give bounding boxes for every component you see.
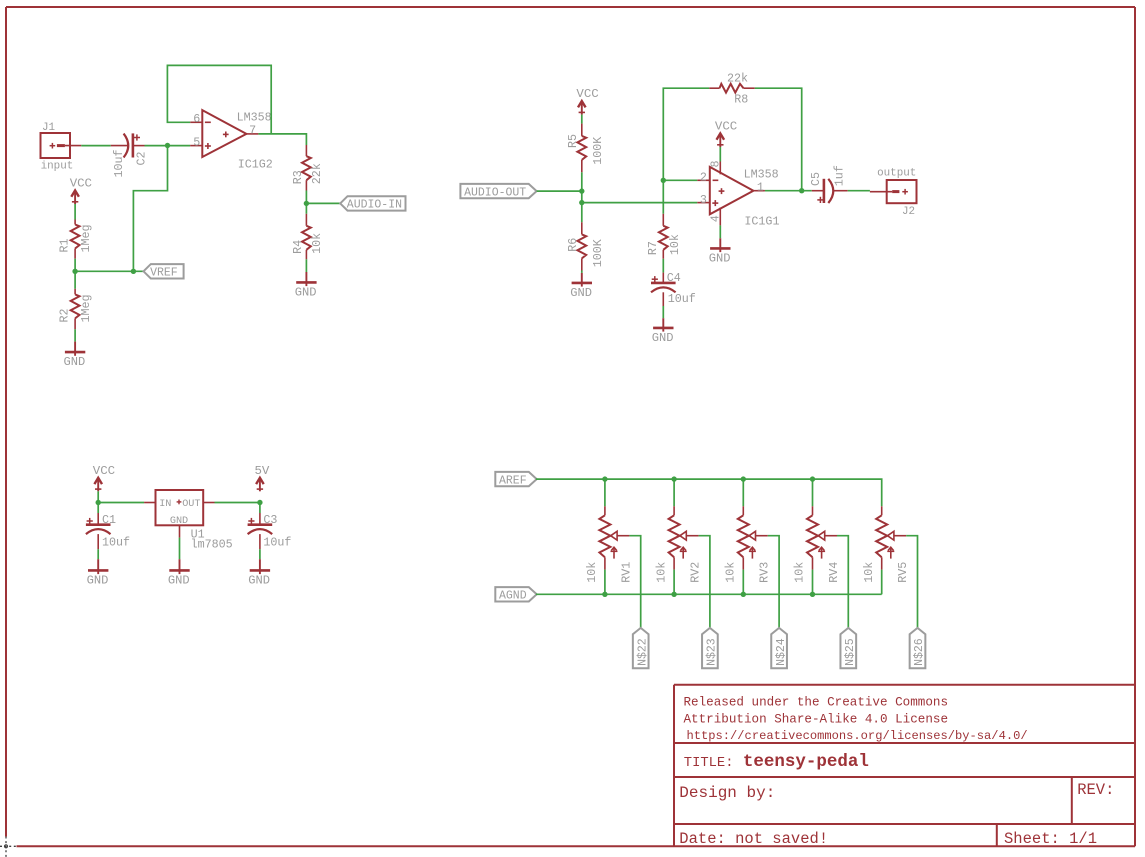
svg-text:10k: 10k — [724, 562, 738, 583]
ground — [87, 559, 109, 587]
junction — [602, 476, 607, 481]
wire — [74, 259, 76, 272]
svg-text:C3: C3 — [263, 513, 277, 527]
junction — [304, 201, 309, 206]
junction — [810, 592, 815, 597]
resistor R8 — [709, 72, 755, 107]
svg-text:10k: 10k — [310, 233, 324, 254]
wire — [74, 271, 76, 289]
net label N$24 — [771, 628, 788, 668]
svg-text:Attribution Share-Alike 4.0 Li: Attribution Share-Alike 4.0 License — [684, 712, 949, 726]
potentiometer RV1 — [585, 506, 633, 583]
svg-text:VCC: VCC — [715, 120, 737, 134]
svg-text:LM358: LM358 — [237, 111, 272, 125]
ground — [248, 559, 270, 587]
svg-text:GND: GND — [87, 573, 109, 587]
svg-text:100K: 100K — [591, 137, 605, 165]
wire — [742, 479, 744, 506]
wire — [259, 549, 261, 559]
wire — [663, 88, 709, 180]
svg-text:3: 3 — [700, 193, 707, 207]
wire — [662, 306, 664, 318]
connector J1 — [41, 122, 82, 173]
svg-text:OUT: OUT — [182, 499, 200, 510]
wire — [837, 536, 848, 628]
svg-text:R4: R4 — [291, 240, 305, 254]
svg-text:10k: 10k — [862, 562, 876, 583]
svg-text:J1: J1 — [42, 122, 56, 134]
junction — [741, 476, 746, 481]
wire — [133, 146, 167, 272]
svg-text:IN: IN — [159, 499, 171, 510]
net label VREF — [144, 264, 184, 279]
svg-text:10uf: 10uf — [102, 535, 130, 549]
junction — [602, 592, 607, 597]
svg-text:RV2: RV2 — [689, 562, 703, 583]
svg-text:J2: J2 — [902, 206, 915, 218]
wire — [581, 191, 583, 203]
resistor R1 — [58, 220, 94, 259]
svg-text:R6: R6 — [566, 238, 580, 252]
svg-text:GND: GND — [168, 573, 190, 587]
wire — [74, 329, 76, 341]
wire — [305, 191, 307, 204]
svg-text:Sheet: 1/1: Sheet: 1/1 — [1004, 830, 1097, 848]
svg-text:N$25: N$25 — [844, 638, 857, 666]
net label AREF — [495, 472, 536, 488]
wire — [306, 202, 340, 204]
wire — [305, 259, 307, 272]
svg-text:VCC: VCC — [576, 87, 598, 101]
wire — [662, 259, 664, 273]
capacitor C3 — [248, 513, 292, 550]
svg-text:4: 4 — [709, 215, 723, 222]
svg-text:input: input — [41, 161, 74, 173]
wire — [97, 549, 99, 559]
svg-text:N$23: N$23 — [706, 638, 719, 666]
wire — [536, 593, 882, 595]
svg-text:1uf: 1uf — [832, 165, 846, 186]
ground — [709, 238, 731, 265]
wire — [179, 538, 181, 560]
wire — [97, 503, 99, 514]
resistor R6 — [566, 222, 605, 270]
svg-text:VCC: VCC — [93, 464, 115, 478]
wire — [663, 179, 697, 181]
wire — [258, 134, 306, 145]
svg-text:GND: GND — [570, 286, 592, 300]
svg-text:C1: C1 — [102, 513, 116, 527]
svg-text:GND: GND — [170, 516, 188, 527]
wire — [812, 570, 814, 595]
wire — [719, 225, 721, 238]
junction — [661, 178, 666, 183]
wire — [848, 190, 870, 192]
svg-text:N$22: N$22 — [636, 638, 649, 666]
svg-text:10k: 10k — [793, 562, 807, 583]
resistor R3 — [291, 145, 324, 191]
wire — [812, 479, 814, 506]
wire — [906, 536, 917, 628]
svg-text:R5: R5 — [566, 134, 580, 148]
svg-text:AUDIO-OUT: AUDIO-OUT — [464, 187, 526, 200]
wire — [168, 145, 191, 147]
svg-text:5V: 5V — [255, 464, 270, 478]
wire — [582, 202, 698, 204]
op-amp IC1G2 — [190, 110, 273, 172]
svg-text:10uf: 10uf — [112, 149, 126, 177]
net label AGND — [495, 587, 536, 603]
junction — [579, 188, 584, 193]
ground — [168, 559, 190, 587]
junction — [810, 476, 815, 481]
svg-text:AGND: AGND — [499, 590, 527, 603]
wire — [768, 536, 779, 628]
svg-text:10uf: 10uf — [263, 535, 291, 549]
potentiometer RV5 — [862, 506, 910, 583]
wire — [305, 203, 307, 213]
net label AUDIO-OUT — [460, 184, 536, 200]
svg-text:teensy-pedal: teensy-pedal — [743, 752, 869, 772]
svg-text:C4: C4 — [667, 271, 681, 285]
svg-text:RV4: RV4 — [827, 562, 841, 583]
svg-text:lm7805: lm7805 — [191, 538, 233, 552]
svg-text:6: 6 — [193, 112, 200, 126]
junction — [671, 592, 676, 597]
svg-text:GND: GND — [248, 573, 270, 587]
power VCC — [715, 120, 737, 147]
power VCC — [70, 177, 92, 204]
wire — [581, 115, 583, 124]
svg-text:N$26: N$26 — [913, 638, 926, 666]
svg-text:R3: R3 — [291, 170, 305, 184]
wire — [581, 172, 583, 191]
potentiometer RV4 — [793, 506, 841, 583]
capacitor C2 — [111, 133, 149, 177]
ground — [295, 272, 317, 299]
ground — [652, 318, 674, 345]
wire — [604, 479, 606, 506]
svg-text:GND: GND — [295, 285, 317, 299]
svg-text:IC1G2: IC1G2 — [238, 158, 273, 172]
wire — [81, 145, 111, 147]
wire — [719, 147, 721, 162]
resistor R5 — [566, 124, 605, 173]
wire — [145, 145, 168, 147]
svg-text:RV1: RV1 — [619, 562, 633, 583]
power VCC — [93, 464, 115, 491]
net label AUDIO-IN — [340, 196, 405, 211]
svg-text:VREF: VREF — [150, 266, 178, 279]
resistor R2 — [58, 289, 94, 330]
svg-text:GND: GND — [652, 331, 674, 345]
capacitor C5 — [809, 165, 848, 203]
net label N$25 — [840, 628, 857, 668]
wire — [167, 65, 271, 133]
junction — [741, 592, 746, 597]
junction — [96, 500, 101, 505]
svg-text:1: 1 — [757, 180, 764, 194]
svg-text:REV:: REV: — [1077, 781, 1114, 799]
power VCC — [576, 87, 598, 114]
svg-text:TITLE:: TITLE: — [684, 756, 734, 771]
wire — [673, 479, 675, 506]
svg-text:output: output — [877, 167, 916, 179]
svg-text:1Meg: 1Meg — [79, 294, 93, 322]
potentiometer RV2 — [654, 506, 702, 583]
junction — [131, 269, 136, 274]
svg-text:VCC: VCC — [70, 177, 92, 191]
connector J2 — [870, 167, 917, 218]
wire — [581, 271, 583, 273]
ground — [64, 342, 86, 369]
svg-text:RV3: RV3 — [758, 562, 772, 583]
svg-text:Date: not saved!: Date: not saved! — [679, 830, 828, 848]
svg-text:Design by:: Design by: — [679, 784, 775, 802]
voltage regulator U1 — [144, 490, 233, 552]
svg-text:LM358: LM358 — [744, 167, 779, 181]
junction — [671, 476, 676, 481]
wire — [259, 503, 261, 514]
wire — [98, 502, 144, 504]
wire — [215, 502, 260, 504]
wire — [662, 180, 664, 214]
resistor R7 — [646, 214, 682, 259]
svg-text:IC1G1: IC1G1 — [744, 215, 779, 229]
net label N$22 — [633, 628, 650, 668]
resistor R4 — [291, 214, 324, 259]
wire — [75, 270, 143, 272]
wire — [742, 570, 744, 595]
svg-text:5: 5 — [193, 135, 200, 149]
wire — [881, 570, 883, 595]
svg-text:R7: R7 — [646, 241, 660, 255]
wire — [581, 203, 583, 223]
svg-text:C5: C5 — [809, 172, 823, 186]
capacitor C4 — [651, 271, 696, 306]
ground — [570, 273, 592, 300]
net label N$23 — [702, 628, 719, 668]
net label N$26 — [910, 628, 927, 668]
svg-text:10uf: 10uf — [668, 292, 696, 306]
power 5V — [255, 464, 270, 491]
svg-text:2: 2 — [700, 170, 707, 184]
wire — [673, 570, 675, 595]
svg-text:RV5: RV5 — [896, 562, 910, 583]
junction — [165, 143, 170, 148]
svg-text:C2: C2 — [134, 151, 148, 165]
svg-text:R2: R2 — [58, 308, 72, 322]
svg-text:AREF: AREF — [499, 475, 527, 488]
svg-text:Released under the Creative Co: Released under the Creative Commons — [684, 695, 949, 709]
op-amp IC1G1 — [697, 160, 779, 228]
wire — [74, 204, 76, 220]
svg-text:https://creativecommons.org/li: https://creativecommons.org/licenses/by-… — [687, 729, 1028, 743]
junction — [579, 200, 584, 205]
junction — [799, 188, 804, 193]
wire — [765, 190, 812, 192]
svg-text:R1: R1 — [58, 238, 72, 252]
wire — [604, 570, 606, 595]
svg-text:GND: GND — [64, 355, 86, 369]
svg-text:GND: GND — [709, 251, 731, 265]
svg-text:22k: 22k — [310, 163, 324, 184]
svg-text:AUDIO-IN: AUDIO-IN — [347, 199, 402, 212]
wire — [536, 479, 882, 506]
svg-text:22k: 22k — [727, 72, 748, 86]
svg-text:10k: 10k — [654, 562, 668, 583]
junction — [72, 269, 77, 274]
svg-text:10k: 10k — [585, 562, 599, 583]
svg-text:8: 8 — [709, 160, 723, 167]
potentiometer RV3 — [724, 506, 772, 583]
svg-text:10k: 10k — [668, 234, 682, 255]
svg-text:7: 7 — [249, 123, 256, 137]
wire — [629, 536, 640, 628]
svg-text:1Meg: 1Meg — [79, 224, 93, 252]
svg-text:100K: 100K — [591, 239, 605, 267]
wire — [755, 88, 802, 191]
junction — [257, 500, 262, 505]
svg-text:R8: R8 — [734, 93, 748, 107]
svg-text:N$24: N$24 — [775, 638, 788, 666]
wire — [97, 491, 99, 502]
wire — [699, 536, 710, 628]
wire — [537, 190, 582, 192]
capacitor C1 — [86, 513, 130, 550]
